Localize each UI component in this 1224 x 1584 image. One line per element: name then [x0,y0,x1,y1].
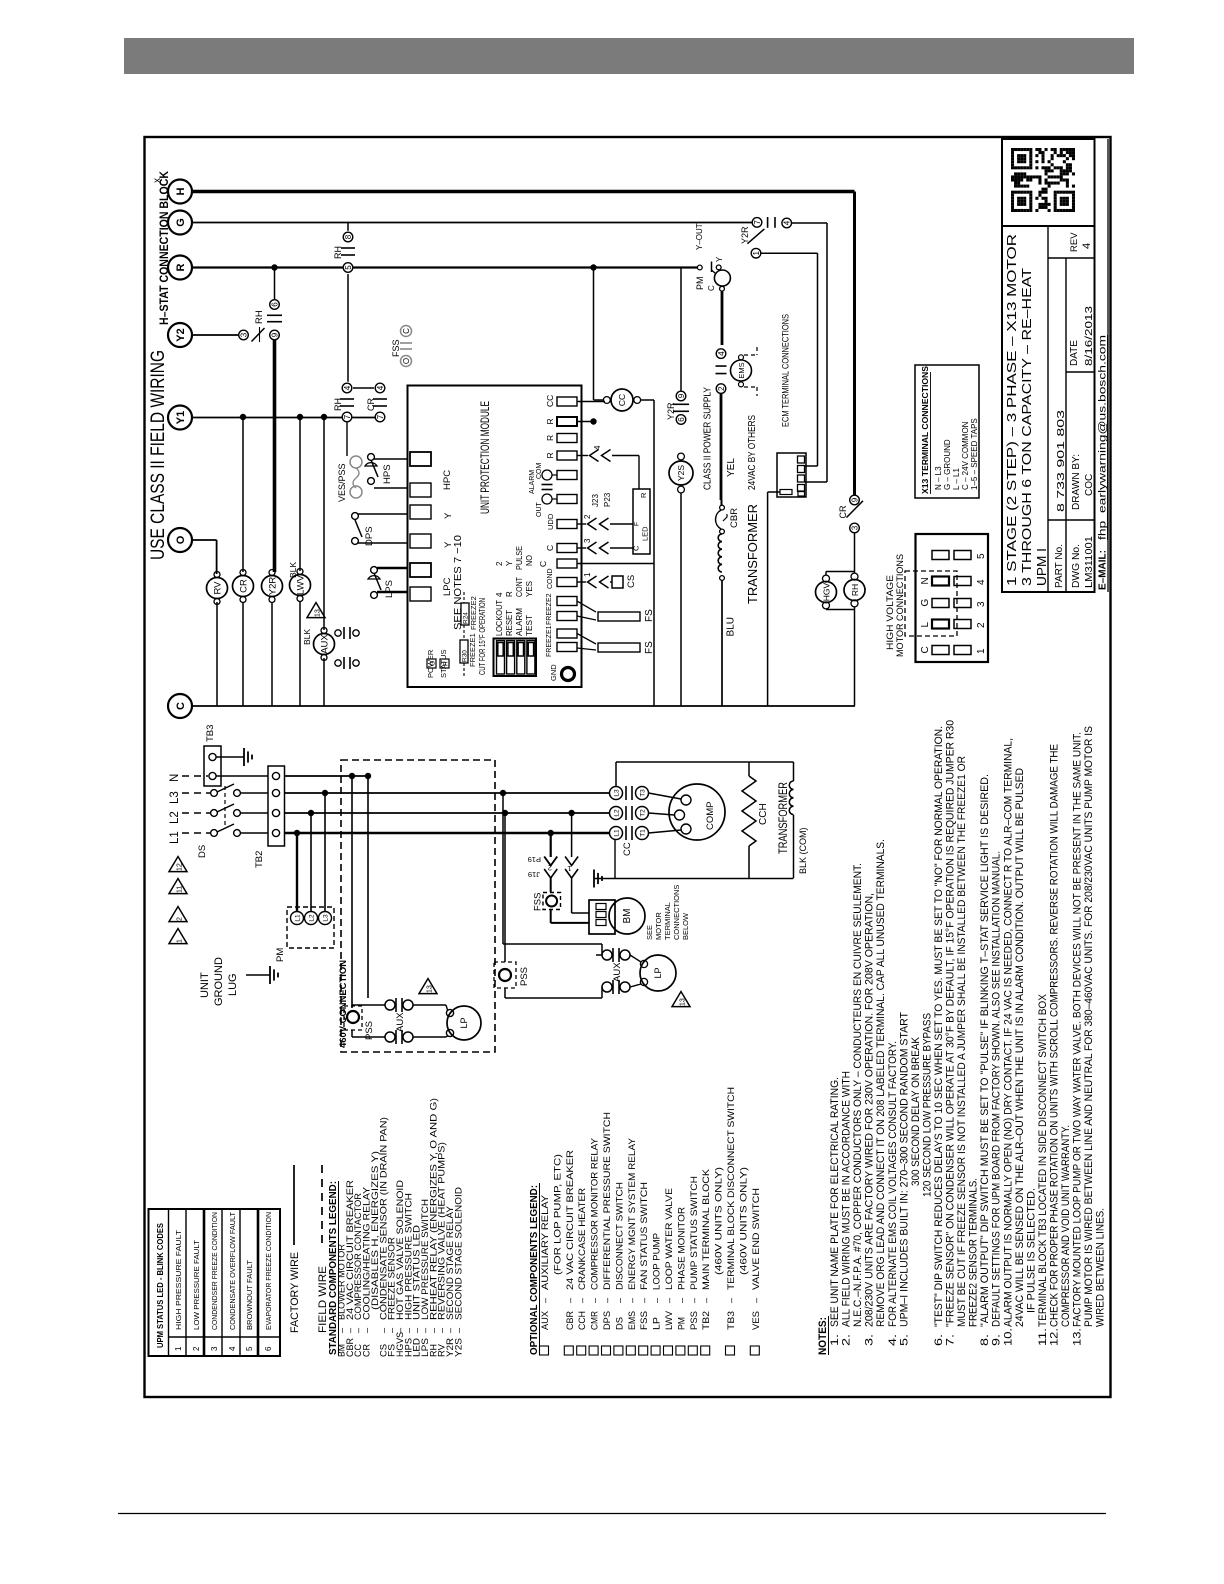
svg-text:R: R [505,591,514,597]
svg-text:C: C [707,285,716,291]
svg-text:13: 13 [426,985,433,993]
svg-text:9: 9 [677,393,686,398]
svg-text:ALARM: ALARM [515,608,524,636]
svg-text:J19: J19 [528,870,540,879]
svg-text:C: C [538,561,548,567]
svg-text:1–5 – SPEED TAPS: 1–5 – SPEED TAPS [970,418,979,490]
svg-text:11: 11 [176,886,183,893]
svg-text:LP: LP [459,1017,469,1028]
svg-text:"FREEZE SENSOR" ON CONDENSER W: "FREEZE SENSOR" ON CONDENSER WILL OPERAT… [945,720,957,1327]
svg-text:9.: 9. [991,1334,1003,1346]
svg-text:DATE: DATE [1069,340,1080,366]
svg-text:8.: 8. [979,1334,991,1346]
svg-text:FAN STATUS SWITCH: FAN STATUS SWITCH [639,1182,649,1290]
svg-text:CCH: CCH [758,803,769,825]
svg-text:CC: CC [617,394,627,406]
svg-text:5: 5 [344,265,353,270]
svg-text:LP: LP [652,1317,662,1330]
svg-text:L1: L1 [614,829,621,837]
svg-text:PART No.: PART No. [1054,544,1065,588]
svg-text:–: – [540,1297,550,1303]
svg-text:OPTIONAL COMPONENTS LEGEND:: OPTIONAL COMPONENTS LEGEND: [529,1185,540,1355]
svg-text:4: 4 [343,385,352,390]
svg-text:WIRED BETWEEN LINES.: WIRED BETWEEN LINES. [1095,1208,1107,1327]
svg-text:TB2: TB2 [254,851,265,868]
svg-text:COMPRESSOR AND VOID UNIT WARRA: COMPRESSOR AND VOID UNIT WARRANTY. [1060,1125,1072,1327]
svg-text:C: C [920,646,931,653]
svg-text:RH: RH [333,398,343,411]
svg-text:–: – [453,1327,463,1333]
svg-text:LOOP PUMP: LOOP PUMP [652,1233,662,1290]
svg-text:–: – [726,1297,736,1303]
svg-text:ENERGY MGNT SYSTEM RELAY: ENERGY MGNT SYSTEM RELAY [627,1138,637,1290]
svg-text:DEFAULT SETTINGS FOR UPM BOARD: DEFAULT SETTINGS FOR UPM BOARD FROM FACT… [991,851,1003,1327]
svg-text:(460V UNITS ONLY): (460V UNITS ONLY) [738,1167,748,1275]
svg-text:SECOND STAGE SOLENOID: SECOND STAGE SOLENOID [453,1187,463,1320]
svg-text:FREEZE2: FREEZE2 [546,593,553,625]
svg-text:G – GROUND: G – GROUND [943,439,952,490]
svg-text:Y: Y [505,560,514,566]
svg-text:X13 TERMINAL CONNECTIONS: X13 TERMINAL CONNECTIONS [920,366,930,494]
svg-text:–: – [602,1297,612,1303]
svg-text:N – L3: N – L3 [934,466,943,490]
svg-text:1: 1 [174,1346,183,1351]
svg-text:FSS: FSS [533,893,544,911]
svg-text:T1: T1 [640,829,647,837]
svg-text:2: 2 [976,622,987,628]
svg-text:PULSE: PULSE [515,546,524,570]
svg-text:DS: DS [614,1317,624,1330]
svg-text:8/16/2013: 8/16/2013 [1083,306,1095,366]
svg-text:L3: L3 [323,914,330,922]
svg-text:AUX: AUX [319,634,330,654]
svg-text:3: 3 [850,525,859,530]
svg-text:CUT FOR 15°F OPERATION: CUT FOR 15°F OPERATION [477,598,487,675]
svg-text:G: G [175,218,187,227]
svg-text:LOCKOUT: LOCKOUT [495,600,504,636]
svg-text:TRANSFORMER: TRANSFORMER [745,504,760,604]
svg-text:2.: 2. [841,1334,853,1346]
svg-text:UPM I: UPM I [1034,548,1049,586]
svg-text:RV: RV [212,581,223,595]
svg-text:24VAC BY OTHERS: 24VAC BY OTHERS [747,415,758,490]
svg-text:7: 7 [753,220,762,225]
svg-text:BROWNOUT FAULT: BROWNOUT FAULT [245,1260,254,1330]
svg-text:PUMP STATUS SWITCH: PUMP STATUS SWITCH [689,1176,699,1290]
svg-text:(FOR LOP PUMP, ETC): (FOR LOP PUMP, ETC) [552,1154,562,1275]
svg-text:4: 4 [228,1346,237,1351]
svg-text:7: 7 [343,414,352,419]
svg-text:24 VAC CIRCUIT BREAKER: 24 VAC CIRCUIT BREAKER [565,1150,575,1290]
svg-text:L3: L3 [169,791,181,804]
svg-text:2: 2 [717,386,726,391]
svg-text:6: 6 [264,1346,273,1351]
svg-text:UDD: UDD [546,513,555,530]
svg-text:LUG: LUG [227,973,239,996]
svg-text:LPS: LPS [384,580,395,598]
svg-text:13.: 13. [1072,1328,1084,1346]
svg-text:–: – [676,1297,686,1303]
svg-text:L2: L2 [614,809,621,817]
svg-text:6.: 6. [933,1334,945,1346]
svg-text:REMOVE ORG LEAD AND CONNECT IT: REMOVE ORG LEAD AND CONNECT IT ON 208 LA… [875,839,887,1327]
svg-text:NOTES:: NOTES: [817,1317,829,1355]
svg-text:1: 1 [567,864,571,873]
svg-text:TB3: TB3 [205,725,216,742]
svg-text:MAIN TERMINAL BLOCK: MAIN TERMINAL BLOCK [701,1168,711,1290]
svg-text:CONDENDSER FREEZE CONDITION: CONDENDSER FREEZE CONDITION [210,1212,219,1330]
svg-text:SEE UNIT NAME PLATE FOR ELECTR: SEE UNIT NAME PLATE FOR ELECTRICAL RATIN… [829,1077,841,1327]
svg-text:1: 1 [752,250,761,255]
svg-text:BELOW: BELOW [681,912,690,940]
svg-text:GND: GND [549,664,558,681]
svg-text:LWV: LWV [664,1310,674,1330]
svg-text:DWG No.: DWG No. [1071,544,1082,588]
svg-text:REV: REV [1069,232,1080,252]
svg-text:4: 4 [717,351,726,356]
svg-text:N.E.C.–N.F.P.A. #70, COPPER CO: N.E.C.–N.F.P.A. #70, COPPER CONDUCTORS O… [852,863,864,1327]
svg-text:G: G [920,599,931,607]
svg-text:R: R [545,418,555,424]
svg-text:HIGH PRESSURE FAULT: HIGH PRESSURE FAULT [174,1230,183,1330]
svg-text:2: 2 [176,917,183,921]
svg-text:CBR: CBR [565,1311,575,1330]
svg-text:2: 2 [192,1346,201,1351]
svg-text:TERMINAL BLOCK DISCONNECT SWIT: TERMINAL BLOCK DISCONNECT SWITCH [726,1087,736,1290]
svg-text:L2: L2 [169,811,181,824]
svg-text:TRANSFORMER: TRANSFORMER [776,782,790,854]
svg-text:BLK: BLK [302,629,312,645]
svg-text:1: 1 [583,572,592,577]
svg-text:fhp_earlywarning@us.bosch.com: fhp_earlywarning@us.bosch.com [1097,335,1109,540]
svg-text:SEE: SEE [645,925,654,940]
svg-text:ALARM: ALARM [529,470,536,494]
svg-text:R: R [443,661,450,666]
svg-text:J23: J23 [591,494,600,507]
svg-text:C: C [402,328,411,334]
svg-text:–: – [751,1297,761,1303]
svg-text:4: 4 [783,220,792,225]
svg-text:–: – [614,1297,624,1303]
svg-text:FREEZE2 SENSOR TERMINALS.: FREEZE2 SENSOR TERMINALS. [968,1178,980,1327]
svg-text:4: 4 [593,445,602,450]
svg-text:L – L1: L – L1 [952,468,961,490]
svg-text:P23: P23 [603,492,612,507]
svg-text:"TEST" DIP SWITCH REDUCES DELA: "TEST" DIP SWITCH REDUCES DELAYS TO 10 S… [933,726,945,1327]
svg-text:TERMINAL BLOCK TB3 LOCATED IN: TERMINAL BLOCK TB3 LOCATED IN SIDE DISCO… [1037,993,1049,1327]
svg-text:Y: Y [715,256,724,262]
svg-text:AUX: AUX [395,1012,406,1032]
svg-text:CR: CR [838,505,848,518]
svg-text:Y2R: Y2R [666,402,676,420]
svg-text:–: – [639,1297,649,1303]
svg-text:CONNECTIONS: CONNECTIONS [672,885,681,940]
svg-text:OUT: OUT [536,502,543,518]
svg-text:N: N [169,774,181,782]
svg-text:TB3: TB3 [726,1311,736,1330]
svg-text:UPM STATUS LED - BLINK CODES: UPM STATUS LED - BLINK CODES [156,1222,165,1348]
svg-text:G: G [430,661,437,666]
svg-text:8: 8 [344,234,353,239]
svg-text:–: – [627,1297,637,1303]
svg-text:DRAWN BY:: DRAWN BY: [1071,454,1082,510]
svg-text:MOTOR CONNECTIONS: MOTOR CONNECTIONS [895,554,906,657]
svg-text:6: 6 [677,417,686,422]
svg-text:2: 2 [548,864,552,873]
svg-text:11.: 11. [1037,1328,1049,1346]
svg-text:UPM–I INCLUDES BUILT IN: 270–: UPM–I INCLUDES BUILT IN: 270–300 SECOND … [898,1012,910,1327]
svg-text:T2: T2 [640,809,647,817]
svg-text:L: L [920,622,931,628]
svg-text:FACTORY MOUNTED LOOP PUMP OR T: FACTORY MOUNTED LOOP PUMP OR TWO WAY WAT… [1072,732,1084,1327]
svg-text:UNIT: UNIT [199,972,211,998]
svg-text:BLK (COM): BLK (COM) [798,827,808,874]
svg-text:3 THROUGH 6 TON CAPACITY – RE: 3 THROUGH 6 TON CAPACITY – RE–HEAT [1019,268,1034,586]
svg-text:GROUND: GROUND [213,957,225,1006]
svg-text:LED: LED [641,526,650,541]
svg-text:13: 13 [679,998,686,1006]
svg-text:300 SECOND DELAY ON BREAK: 300 SECOND DELAY ON BREAK [910,1036,922,1186]
svg-text:BLK: BLK [288,562,298,578]
svg-text:CLASS II POWER SUPPLY: CLASS II POWER SUPPLY [703,387,714,490]
svg-text:TEST: TEST [525,615,534,636]
svg-text:USE CLASS II FIELD WIRING: USE CLASS II FIELD WIRING [148,350,169,560]
svg-text:10.: 10. [1002,1328,1014,1346]
svg-text:RH: RH [254,310,265,324]
svg-text:FSS: FSS [639,1311,649,1330]
svg-text:3.: 3. [864,1334,876,1346]
svg-text:–: – [590,1297,600,1303]
svg-text:CC: CC [622,842,633,856]
svg-text:1: 1 [176,939,183,943]
svg-text:3: 3 [976,601,987,607]
svg-text:H: H [175,187,187,195]
svg-text:DISCONNECT SWITCH: DISCONNECT SWITCH [614,1182,624,1290]
svg-text:CR: CR [238,579,249,593]
svg-text:Y–OUT: Y–OUT [695,223,704,250]
svg-text:EMS: EMS [737,362,746,378]
svg-text:FS: FS [644,641,655,654]
svg-text:5: 5 [976,553,987,559]
svg-text:VES: VES [751,1311,761,1330]
svg-text:C: C [545,545,555,551]
svg-text:4.: 4. [887,1334,899,1346]
svg-text:–: – [664,1297,674,1303]
svg-text:–: – [689,1297,699,1303]
svg-text:VES/PSS: VES/PSS [337,463,347,502]
svg-text:Y2R: Y2R [740,226,750,244]
svg-text:120 SECOND LOW PRESSURE BYPAS: 120 SECOND LOW PRESSURE BYPASS [921,1013,933,1197]
svg-text:TB2: TB2 [701,1311,711,1330]
svg-text:–: – [362,1327,372,1333]
svg-text:FREEZE1: FREEZE1 [546,625,553,657]
svg-text:R: R [545,435,555,441]
svg-text:208/230V UNITS ARE FACTORY WIR: 208/230V UNITS ARE FACTORY WIRED FOR 230… [864,893,876,1327]
svg-text:EMS: EMS [627,1311,637,1330]
svg-text:YES: YES [525,581,534,597]
svg-text:PUMP MOTOR IS WIRED BETWEEN LI: PUMP MOTOR IS WIRED BETWEEN LINE AND NEU… [1083,726,1095,1327]
svg-text:AUXILIARY RELAY: AUXILIARY RELAY [540,1195,550,1290]
svg-text:1: 1 [976,648,987,654]
svg-text:O: O [175,535,187,544]
svg-text:CRANKCASE HEATER: CRANKCASE HEATER [577,1188,587,1290]
svg-text:O: O [402,358,411,364]
svg-text:C: C [175,702,187,710]
svg-text:7: 7 [376,414,385,419]
svg-text:COND: COND [547,568,554,589]
svg-text:CBR: CBR [729,508,740,528]
svg-text:1.: 1. [829,1334,841,1346]
svg-text:AUX: AUX [540,1311,550,1330]
svg-text:BM: BM [622,909,633,924]
svg-text:ALL FIELD WIRING MUST BE IN AC: ALL FIELD WIRING MUST BE IN ACCORDANCE W… [841,1071,853,1327]
svg-text:L3: L3 [614,789,621,797]
svg-text:4: 4 [1081,243,1093,249]
svg-text:VALVE END SWITCH: VALVE END SWITCH [751,1188,761,1290]
svg-text:4: 4 [495,592,504,597]
svg-text:PM: PM [676,1317,686,1330]
svg-text:CS: CS [626,575,637,588]
svg-text:MUST BE CUT IF FREEZE SENSOR I: MUST BE CUT IF FREEZE SENSOR IS NOT INST… [956,756,968,1327]
svg-text:CHECK FOR PROPER PHASE ROTATIO: CHECK FOR PROPER PHASE ROTATION ON UNITS… [1048,744,1060,1327]
svg-text:L2: L2 [309,914,316,922]
svg-text:LOW PRESSURE FAULT: LOW PRESSURE FAULT [192,1240,201,1330]
svg-text:FS: FS [644,609,655,622]
svg-text:DS: DS [197,845,208,858]
svg-text:FACTORY WIRE: FACTORY WIRE [289,1252,301,1333]
svg-text:R: R [639,492,648,498]
svg-text:Y1: Y1 [175,411,187,424]
svg-text:CONDENSATE OVERFLOW FAULT: CONDENSATE OVERFLOW FAULT [228,1212,237,1330]
svg-text:R: R [545,452,555,458]
svg-text:3: 3 [210,1346,219,1351]
svg-text:YEL: YEL [726,458,737,477]
svg-text:RESET: RESET [505,610,514,636]
svg-text:CONT: CONT [515,577,524,597]
svg-text:PSS: PSS [689,1311,699,1330]
svg-text:HGV: HGV [822,582,832,601]
svg-text:DIFFERENTIAL PRESSURE SWITCH: DIFFERENTIAL PRESSURE SWITCH [602,1112,612,1290]
svg-text:CMR: CMR [590,1311,600,1330]
svg-text:NO: NO [525,555,534,566]
svg-text:HPC: HPC [442,470,453,490]
svg-text:–: – [565,1297,575,1303]
svg-text:BLU: BLU [726,617,737,636]
svg-text:2: 2 [583,514,592,519]
svg-text:COC: COC [1084,474,1095,496]
svg-text:7.: 7. [945,1334,957,1346]
svg-text:CR: CR [362,1344,372,1357]
svg-text:ECM TERMINAL CONNECTIONS: ECM TERMINAL CONNECTIONS [781,314,792,427]
svg-text:3: 3 [583,538,592,543]
svg-text:L1: L1 [295,914,302,922]
svg-text:6: 6 [270,302,279,307]
svg-text:8 733 901 803: 8 733 901 803 [1055,410,1067,512]
svg-text:UNIT PROTECTION MODULE: UNIT PROTECTION MODULE [480,401,492,514]
svg-text:24VAC WILL BE SENSED ON THE AL: 24VAC WILL BE SENSED ON THE ALR–OUT WHEN… [1014,768,1026,1327]
svg-text:HPS: HPS [382,464,393,484]
svg-text:TERMINAL: TERMINAL [663,902,672,940]
svg-text:FSS: FSS [391,339,401,357]
svg-text:IF PULSE IS SELECTED.: IF PULSE IS SELECTED. [1025,1188,1037,1313]
svg-text:1 STAGE (2 STEP) – 3 PHASE –: 1 STAGE (2 STEP) – 3 PHASE – X13 MOTOR [1004,234,1019,586]
svg-text:L1: L1 [169,831,181,844]
svg-text:E–MAIL:: E–MAIL: [1097,550,1109,590]
svg-text:13: 13 [314,609,321,617]
svg-text:COMPRESSOR MONITOR RELAY: COMPRESSOR MONITOR RELAY [590,1138,600,1290]
svg-text:N: N [920,577,931,584]
svg-text:Y2: Y2 [175,328,187,341]
svg-text:4: 4 [976,579,987,585]
svg-text:PM: PM [695,277,705,291]
svg-text:EVAPORATOR FREEZE CONDITION: EVAPORATOR FREEZE CONDITION [264,1212,273,1330]
svg-text:LP: LP [653,967,663,978]
svg-text:DPS: DPS [602,1311,612,1330]
svg-text:RH: RH [850,584,860,596]
svg-text:Y2R: Y2R [267,577,278,596]
svg-text:2: 2 [495,561,504,566]
svg-text:9: 9 [850,497,859,502]
svg-text:PM: PM [275,948,286,962]
svg-text:AUX: AUX [612,962,623,982]
svg-text:12.: 12. [1048,1328,1060,1346]
svg-text:4: 4 [376,385,385,390]
svg-text:MOTOR: MOTOR [654,912,663,940]
svg-text:FREEZE1: FREEZE1 [468,633,477,667]
svg-text:ALARM OUTPUT IS NORMALLY OPEN: ALARM OUTPUT IS NORMALLY OPEN (NO) DRY C… [1002,738,1014,1327]
svg-text:(460V UNITS ONLY): (460V UNITS ONLY) [714,1167,724,1275]
svg-text:12: 12 [176,863,183,871]
svg-text:460V CONNECTION: 460V CONNECTION [338,960,349,1048]
svg-text:Y: Y [443,512,454,519]
svg-text:FOR ALTERNATE EMS COIL VOLTAGE: FOR ALTERNATE EMS COIL VOLTAGES CONSULT … [887,1041,899,1327]
svg-text:5.: 5. [898,1334,910,1346]
svg-text:PHASE MONITOR: PHASE MONITOR [676,1207,686,1290]
svg-text:LOOP WATER VALVE: LOOP WATER VALVE [664,1188,674,1290]
svg-text:R: R [175,263,187,271]
svg-text:Y2S: Y2S [676,465,686,481]
svg-text:–: – [701,1297,711,1303]
svg-text:CC: CC [545,395,555,407]
svg-text:CR: CR [366,398,376,411]
svg-text:F: F [634,522,641,526]
svg-text:C – 24V COMMON: C – 24V COMMON [961,421,970,490]
svg-text:5: 5 [245,1346,254,1351]
svg-text:COMP: COMP [705,802,716,831]
svg-text:T3: T3 [640,789,647,797]
svg-text:"ALARM OUTPUT" DIP SWITCH MUST: "ALARM OUTPUT" DIP SWITCH MUST BE SET TO… [979,774,991,1327]
svg-text:–: – [652,1297,662,1303]
svg-text:PSS: PSS [519,967,530,986]
svg-text:3: 3 [239,332,248,337]
svg-text:Y2S: Y2S [453,1338,463,1357]
svg-text:RH: RH [333,246,343,259]
svg-text:–: – [577,1297,587,1303]
svg-text:9: 9 [270,332,279,337]
svg-text:P19: P19 [528,855,541,864]
svg-text:CCH: CCH [577,1311,587,1330]
svg-text:LM311001: LM311001 [1083,536,1095,588]
